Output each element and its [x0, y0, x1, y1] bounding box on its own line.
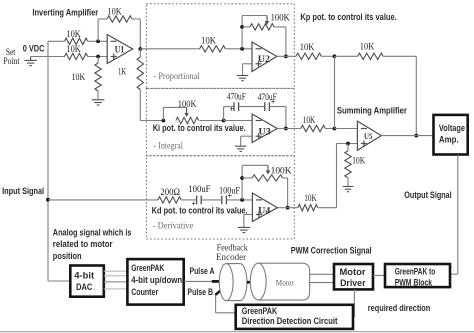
resistor R8 10K (U3 out to summing) — [301, 125, 326, 131]
node U2 output junction — [284, 55, 288, 59]
svg-text:200Ω: 200Ω — [160, 187, 180, 197]
potentiometer P1 100K (U2 feedback) — [250, 24, 274, 30]
wire U4 plus stub — [244, 214, 253, 216]
wire U5 fb top from summing node — [335, 55, 358, 57]
resistor R5 1K (U1 out to integral feed) — [139, 49, 141, 57]
svg-text:U1: U1 — [115, 45, 125, 56]
wire input to 200ohm — [48, 199, 158, 201]
svg-text:10K: 10K — [360, 41, 375, 51]
wire Pulse A — [184, 280, 212, 282]
wire integral pot to cap node — [200, 120, 224, 122]
wire riser to U5 plus — [337, 143, 358, 145]
node U3 output junction — [284, 127, 288, 131]
wire U1 feedback right vertical — [139, 19, 141, 49]
svg-text:Output Signal: Output Signal — [404, 190, 451, 200]
svg-text:100K: 100K — [271, 12, 291, 22]
svg-text:10K: 10K — [66, 44, 81, 54]
node U1 minus junction — [96, 39, 100, 43]
svg-text:470uF: 470uF — [227, 91, 246, 101]
svg-text:10K: 10K — [201, 36, 216, 46]
block Motor Driver box — [334, 264, 373, 289]
wire U2 pot left vertical — [241, 16, 243, 49]
node integral pot left junction — [162, 119, 166, 123]
wire U2 feedback right vertical — [285, 27, 287, 57]
svg-text:position: position — [53, 251, 82, 261]
node integral cap junction — [222, 119, 226, 123]
svg-text:100K: 100K — [271, 165, 293, 175]
wire R6 to U2- node — [225, 48, 252, 50]
wire R9 to C3 — [181, 199, 197, 201]
svg-text:U2: U2 — [258, 54, 270, 65]
node U4 pot left junction — [240, 176, 244, 180]
svg-text:U3: U3 — [259, 127, 271, 138]
wire set-point row — [31, 56, 65, 58]
svg-text:required direction: required direction — [368, 303, 431, 313]
wire R7 to summing node — [321, 55, 334, 57]
svg-text:1K: 1K — [118, 67, 127, 77]
svg-text:Driver: Driver — [340, 278, 366, 288]
resistor R9 200ohm (derivative input) — [158, 197, 181, 203]
wire U2 pot top — [242, 15, 267, 17]
svg-text:10K: 10K — [108, 7, 123, 17]
svg-text:Counter: Counter — [131, 287, 158, 297]
svg-text:10K: 10K — [352, 156, 366, 166]
svg-text:PWM Block: PWM Block — [395, 277, 432, 287]
resistor R12 10K (U5 feedback) — [358, 53, 383, 59]
wire DAC-counter bit3 — [104, 288, 128, 290]
block GreenPAK counter box — [127, 259, 183, 305]
svg-text:- Derivative: - Derivative — [153, 221, 194, 232]
node summing top junction — [333, 54, 337, 58]
wire output into PWM block — [450, 273, 458, 275]
resistor R3 10K (U1 feedback) — [107, 16, 132, 22]
pot wiper arrow (Kd) — [267, 165, 269, 171]
svg-text:GreenPAK: GreenPAK — [131, 263, 164, 273]
proportional section dashed box — [146, 4, 294, 89]
svg-text:- Proportional: - Proportional — [154, 71, 200, 82]
capacitor C4 100uF — [221, 196, 223, 205]
wire U3 out to R8 — [277, 128, 301, 130]
wire U3 pot left vertical — [162, 107, 164, 120]
block GreenPAK to PWM box — [385, 264, 450, 287]
svg-text:0 VDC: 0 VDC — [23, 43, 45, 54]
svg-text:Direction Detection Circuit: Direction Detection Circuit — [242, 316, 338, 326]
wire R10 to riser — [318, 207, 337, 209]
svg-text:PWM Correction Signal: PWM Correction Signal — [291, 246, 372, 256]
resistor R2 10K (set point to U1+) — [65, 53, 88, 59]
svg-text:Amp.: Amp. — [439, 135, 459, 145]
wire U3 pot top — [163, 106, 186, 108]
svg-text:Ki pot. to control its value.: Ki pot. to control its value. — [153, 123, 246, 133]
pot wiper arrow (Kp) — [266, 16, 268, 22]
wire summing node to U5 minus — [335, 128, 358, 130]
block Voltage Amp box — [434, 115, 468, 155]
op-amp U1 — [107, 35, 133, 64]
encoder cylinder — [226, 264, 247, 301]
svg-text:10K: 10K — [303, 115, 316, 125]
capacitor C3 100uF — [196, 196, 198, 205]
node U2 feedback lower junction — [240, 47, 244, 51]
wire U5 out to voltage amp — [381, 135, 433, 137]
svg-text:Pulse B: Pulse B — [187, 287, 213, 297]
op-amp U2 — [252, 42, 277, 72]
wire U1 feedback left vertical — [97, 19, 99, 41]
wire pot stub (Kd) — [242, 177, 252, 179]
wire input signal to DAC — [48, 280, 70, 282]
ground G4 (U3 plus) — [235, 145, 247, 147]
wire pot right (Kd) — [283, 177, 288, 179]
op-amp U5 — [357, 121, 381, 150]
wire summing node vertical — [334, 56, 336, 128]
wire 1K to integral input — [140, 120, 163, 122]
wire output signal vertical — [457, 155, 459, 274]
wire U1 feedback top left — [98, 18, 107, 20]
resistor R7 10K (U2 out to summing) — [296, 53, 321, 59]
wire DAC-counter bit0 — [104, 270, 128, 272]
capacitor C1 470uF — [233, 102, 235, 111]
resistor R11 10K (U5+ to ground) — [347, 144, 349, 151]
node U2 pot left junction — [240, 25, 244, 29]
svg-text:U5: U5 — [364, 131, 372, 141]
node summing mid junction — [333, 127, 337, 131]
wire Pulse B down to direction circuit — [215, 295, 217, 313]
derivative section dashed box — [146, 156, 294, 239]
wire motor to driver lower — [310, 282, 334, 284]
wire driver to pwm block — [373, 274, 385, 276]
wire cap right riser — [269, 106, 286, 108]
svg-text:Analog signal which is: Analog signal which is — [53, 227, 132, 237]
node U4 input junction — [240, 198, 244, 202]
svg-text:Input Signal: Input Signal — [2, 186, 44, 196]
svg-text:Inverting Amplifier: Inverting Amplifier — [32, 8, 98, 18]
bottom edge artifact line — [0, 331, 474, 333]
node U4 output junction — [286, 206, 290, 210]
svg-text:Motor: Motor — [276, 278, 294, 288]
capacitor C2 470uF — [264, 102, 266, 111]
node input-signal branch junction — [46, 198, 50, 202]
wire R2 to U1+ node — [88, 56, 108, 58]
svg-text:10K: 10K — [72, 72, 86, 82]
potentiometer P3 100K (U4 feedback) — [252, 175, 283, 181]
op-amp U4 — [252, 193, 277, 222]
svg-text:10K: 10K — [304, 193, 317, 203]
ground G6 (under R11) — [343, 186, 354, 188]
potentiometer P2 100K (integral input) — [176, 117, 199, 123]
block GreenPAK direction detection box — [236, 305, 353, 329]
svg-text:4-bit up/down: 4-bit up/down — [131, 275, 182, 285]
svg-text:Point: Point — [3, 56, 20, 66]
wire between C1 C2 — [239, 106, 265, 108]
svg-text:100K: 100K — [178, 99, 197, 109]
tick Pulse A into encoder — [212, 280, 223, 283]
wire R1 to U1- node — [88, 40, 108, 42]
svg-text:related to motor: related to motor — [53, 239, 113, 249]
wire C4 to U4- node — [226, 199, 252, 201]
wire pot right — [274, 26, 286, 28]
ground G5 (U4 plus) — [238, 226, 251, 228]
svg-text:DAC: DAC — [76, 282, 93, 292]
wire R8 to summing node — [325, 128, 334, 130]
svg-text:- Integral: - Integral — [154, 140, 184, 151]
wire C3 to C4 — [201, 199, 222, 201]
node U1 output junction — [138, 47, 142, 51]
svg-text:Encoder: Encoder — [216, 252, 246, 262]
resistor R4 10K (U1+ to ground) — [97, 57, 99, 64]
wire required direction — [353, 290, 355, 318]
node U1 plus junction — [96, 55, 100, 59]
svg-text:+: + — [271, 98, 276, 107]
wire R12 to right vertical — [383, 55, 416, 57]
block 4-bit DAC box — [70, 266, 104, 297]
motor cylinder — [258, 263, 309, 300]
wire derivative riser vertical — [336, 144, 338, 208]
wire U5 feedback right vertical — [415, 56, 417, 135]
wire cap node to U3- — [224, 120, 253, 122]
wire cap left riser — [223, 107, 225, 121]
wire U4 feedback right vertical — [287, 178, 289, 208]
svg-text:Kd pot. to control its value.: Kd pot. to control its value. — [152, 205, 248, 215]
svg-text:Motor: Motor — [340, 267, 367, 277]
tick encoder-motor shaft — [247, 281, 258, 284]
wire U1 out row to R6 — [140, 48, 199, 50]
ground G2 (under R4) — [92, 99, 105, 101]
wire U4 pot left vertical — [241, 165, 243, 200]
wire U1 feedback top right — [132, 18, 140, 20]
ground G3 (U2 plus) — [237, 75, 249, 77]
wire U2 out to R7 — [277, 55, 296, 57]
resistor R6 10K (to U2-) — [200, 46, 226, 52]
ground G1 (set point 0VDC) — [30, 57, 32, 61]
svg-text:Pulse A: Pulse A — [190, 266, 215, 276]
svg-text:+: + — [229, 105, 234, 114]
node U5 output junction — [414, 134, 418, 138]
svg-text:U4: U4 — [258, 206, 270, 217]
wire pot stub — [242, 26, 250, 28]
wire U2 plus stub — [243, 63, 253, 65]
svg-text:GreenPAK: GreenPAK — [242, 306, 278, 316]
op-amp U3 — [252, 114, 277, 143]
node U5 plus junction — [346, 142, 350, 146]
svg-text:10K: 10K — [66, 29, 81, 39]
wire DAC-counter bit1 — [104, 275, 128, 277]
svg-text:GreenPAK to: GreenPAK to — [395, 267, 436, 277]
wire U3 plus stub — [241, 135, 252, 137]
svg-text:Kp pot. to control its value.: Kp pot. to control its value. — [300, 12, 396, 22]
wire U4 out to R10 — [277, 207, 298, 209]
tick Pulse B slash — [215, 286, 225, 295]
wire DAC-counter bit2 — [104, 281, 128, 283]
node input-signal vertical wire — [47, 41, 49, 281]
svg-text:Summing Amplifier: Summing Amplifier — [337, 105, 407, 115]
wire input top corner to R1 — [48, 40, 65, 42]
wire motor to driver upper — [310, 273, 334, 275]
svg-text:4-bit: 4-bit — [74, 270, 94, 280]
svg-text:Voltage: Voltage — [439, 123, 465, 133]
integral section dashed box — [146, 88, 294, 155]
resistor R10 10K (U4 out) — [298, 205, 318, 211]
svg-text:10K: 10K — [300, 42, 315, 52]
svg-text:100uF: 100uF — [188, 184, 210, 194]
resistor R1 10K (input to U1-) — [65, 38, 88, 44]
wire U4 pot top — [242, 164, 268, 166]
pot wiper arrow (Ki) — [186, 107, 188, 113]
